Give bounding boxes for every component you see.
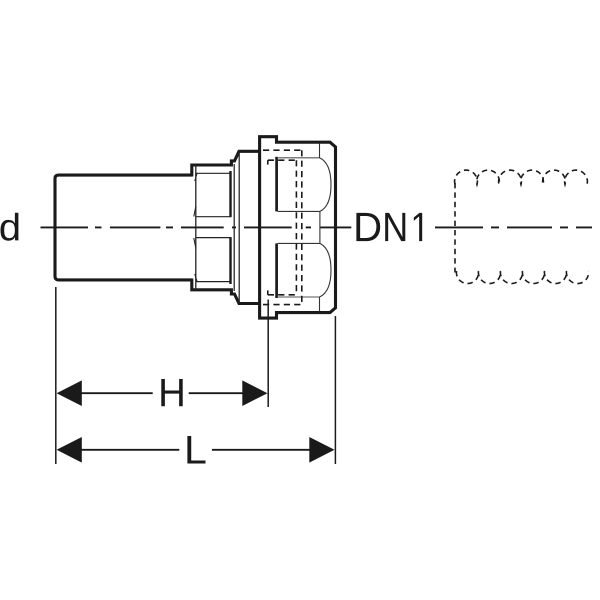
nut face chamfer marks bbox=[194, 174, 197, 282]
chamber top line bbox=[277, 157, 320, 159]
corrugated pipe bottom wall bbox=[456, 271, 588, 284]
dimension H arrow right bbox=[242, 380, 267, 406]
waist edge bbox=[319, 211, 321, 243]
union nut top profile bbox=[192, 151, 260, 176]
dimension H arrow left bbox=[57, 380, 82, 406]
nut flat line upper bbox=[196, 172, 231, 174]
fitting body outline bbox=[260, 137, 336, 318]
dimension H line bbox=[81, 392, 244, 394]
label DN1 digit 1 bbox=[414, 213, 422, 241]
centerline main axis bbox=[41, 226, 352, 228]
ring edge rear bbox=[238, 152, 240, 304]
ring edge front bbox=[233, 164, 235, 291]
insert wall lower bbox=[275, 243, 278, 298]
hidden corner tick bottom bbox=[267, 290, 269, 294]
dimension L arrow right bbox=[309, 437, 334, 463]
shoulder edge top bbox=[319, 144, 321, 158]
union nut bottom profile bbox=[192, 279, 260, 304]
insert wall upper bbox=[275, 157, 278, 212]
label DN1 letter D bbox=[356, 213, 380, 241]
dimension L arrow left bbox=[57, 437, 82, 463]
hidden pipe inner bottom bbox=[268, 294, 297, 296]
hidden pipe end outer bbox=[301, 150, 303, 304]
corrugated pipe end edge bbox=[454, 183, 456, 273]
label d bbox=[1, 213, 19, 241]
corrugated pipe top wall bbox=[455, 170, 588, 184]
hidden pipe end inner bbox=[295, 160, 297, 295]
hidden pipe inner top bbox=[268, 159, 297, 161]
nut flat line lower bbox=[196, 281, 231, 283]
nut flat line mid-upper bbox=[196, 216, 232, 218]
shoulder edge bottom bbox=[319, 297, 321, 312]
label DN1 letter N bbox=[385, 213, 405, 241]
extension line left bbox=[55, 287, 57, 464]
dimension L line bbox=[81, 449, 311, 451]
hidden corner tick top bbox=[267, 160, 269, 164]
hidden pipe outer top bbox=[263, 149, 302, 151]
chamber inner lower line bbox=[278, 242, 320, 244]
nut flat line mid-lower bbox=[196, 237, 232, 239]
hidden pipe outer bottom bbox=[263, 304, 302, 306]
chamber arc bottom bbox=[320, 243, 332, 297]
chamber inner upper line bbox=[278, 210, 320, 212]
dimension L label bbox=[187, 436, 205, 464]
centerline corrugated pipe bbox=[435, 226, 592, 228]
chamber bottom line bbox=[277, 296, 320, 298]
nut face edge bbox=[195, 165, 197, 290]
pipe spigot d bbox=[55, 175, 192, 280]
nut rear edge bbox=[229, 171, 231, 217]
extension line L right bbox=[334, 316, 336, 464]
extension line H right bbox=[267, 300, 269, 408]
dimension H label bbox=[161, 379, 182, 406]
chamber arc top bbox=[320, 158, 332, 212]
